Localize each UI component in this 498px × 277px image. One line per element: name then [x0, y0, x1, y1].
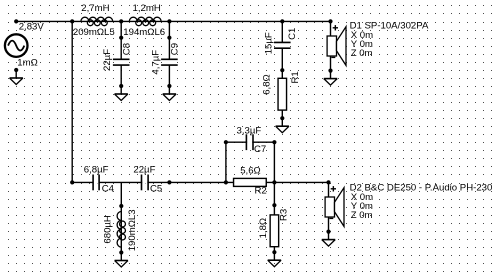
svg-text:1mΩ: 1mΩ [17, 58, 38, 69]
svg-text:1,2mH: 1,2mH [133, 3, 161, 14]
svg-text:R1: R1 [290, 71, 301, 83]
svg-text:2,7mH: 2,7mH [81, 3, 109, 14]
svg-text:15µF: 15µF [263, 32, 274, 54]
svg-text:6,8Ω: 6,8Ω [262, 74, 273, 95]
svg-text:4,7µF: 4,7µF [150, 50, 161, 75]
svg-text:Z 0m: Z 0m [351, 48, 373, 59]
svg-text:R3: R3 [278, 209, 289, 221]
svg-text:22µF: 22µF [102, 49, 113, 71]
svg-text:2,83V: 2,83V [19, 22, 45, 33]
svg-text:C4: C4 [102, 184, 115, 195]
svg-text:5,6Ω: 5,6Ω [240, 166, 261, 177]
svg-text:194mΩL6: 194mΩL6 [123, 27, 165, 38]
svg-text:6,8µF: 6,8µF [84, 165, 109, 176]
svg-text:22µF: 22µF [133, 165, 155, 176]
svg-text:C7: C7 [254, 144, 266, 155]
svg-text:R2: R2 [255, 186, 267, 197]
svg-text:C9: C9 [169, 43, 180, 55]
svg-text:C5: C5 [150, 184, 162, 195]
svg-text:190mΩL3: 190mΩL3 [127, 209, 138, 251]
svg-text:3,3µF: 3,3µF [237, 125, 262, 136]
svg-text:Z 0m: Z 0m [351, 210, 373, 221]
svg-text:209mΩL5: 209mΩL5 [73, 27, 115, 38]
svg-text:1,8Ω: 1,8Ω [258, 218, 269, 239]
svg-text:680µH: 680µH [103, 215, 114, 244]
svg-text:C1: C1 [287, 28, 298, 40]
svg-text:C8: C8 [121, 43, 132, 55]
